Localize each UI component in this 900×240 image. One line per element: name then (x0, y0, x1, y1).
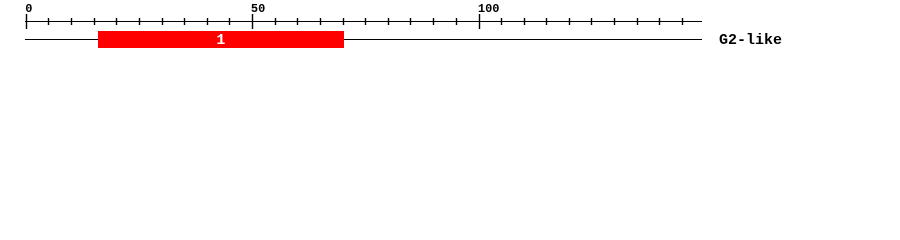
svg-text:0: 0 (25, 2, 32, 16)
svg-text:1: 1 (216, 32, 225, 49)
svg-text:50: 50 (251, 2, 265, 16)
sequence line (25, 39, 702, 40)
ruler major tick at 50 (252, 14, 253, 29)
svg-text:100: 100 (478, 2, 500, 16)
ruler axis line (25, 21, 702, 22)
ruler major tick at 0 (26, 14, 27, 29)
ruler minor ticks (every 5 units) (48, 18, 683, 25)
motif box 1 (red) (98, 31, 344, 48)
svg-text:G2-like: G2-like (719, 32, 782, 49)
ruler major tick at 100 (479, 14, 480, 29)
